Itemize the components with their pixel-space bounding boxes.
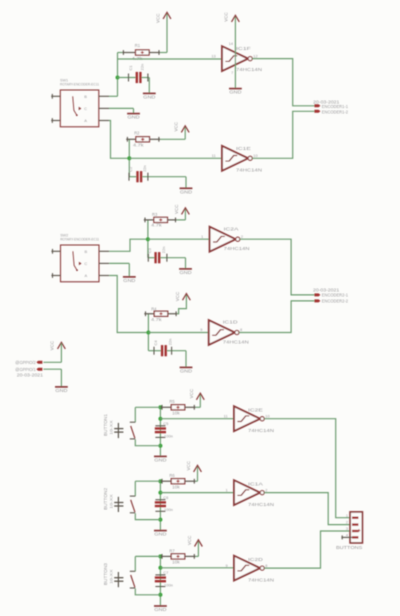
svg-text:IC1E: IC1E bbox=[236, 146, 251, 151]
svg-text:10-XX: 10-XX bbox=[108, 569, 113, 584]
svg-text:R6: R6 bbox=[169, 473, 175, 478]
svg-text:VCC: VCC bbox=[187, 535, 192, 545]
svg-text:12: 12 bbox=[253, 53, 257, 58]
svg-text:IC1A: IC1A bbox=[248, 482, 263, 487]
svg-text:22n: 22n bbox=[142, 165, 147, 172]
svg-text:13: 13 bbox=[211, 53, 215, 58]
svg-text:VCC: VCC bbox=[224, 12, 229, 22]
svg-text:A: A bbox=[84, 273, 87, 278]
svg-text:GND: GND bbox=[179, 270, 192, 275]
svg-text:BUTTON1: BUTTON1 bbox=[103, 413, 108, 436]
svg-text:GND: GND bbox=[154, 457, 167, 462]
svg-text:20-03-2021: 20-03-2021 bbox=[17, 372, 44, 377]
svg-text:14: 14 bbox=[229, 42, 233, 46]
svg-text:74HC14N: 74HC14N bbox=[236, 67, 262, 72]
svg-text:R7: R7 bbox=[169, 548, 175, 553]
svg-text:GND: GND bbox=[127, 115, 140, 120]
svg-text:BUTTONS: BUTTONS bbox=[336, 545, 362, 551]
svg-text:VCC: VCC bbox=[189, 388, 194, 398]
svg-text:10k: 10k bbox=[172, 485, 181, 490]
svg-text:@GPPIO/1: @GPPIO/1 bbox=[15, 367, 36, 372]
svg-text:10-XX: 10-XX bbox=[108, 420, 113, 435]
svg-text:C: C bbox=[84, 261, 87, 266]
svg-text:B: B bbox=[84, 94, 87, 99]
svg-text:IC2E: IC2E bbox=[248, 408, 263, 413]
svg-text:VCC: VCC bbox=[174, 121, 179, 131]
svg-text:GND: GND bbox=[154, 607, 167, 612]
svg-text:C6: C6 bbox=[163, 495, 169, 500]
svg-text:8: 8 bbox=[240, 327, 242, 332]
svg-text:C3: C3 bbox=[147, 247, 152, 253]
svg-text:ENCODER1-2: ENCODER1-2 bbox=[322, 109, 349, 114]
svg-text:74HC14N: 74HC14N bbox=[248, 428, 274, 433]
svg-text:A: A bbox=[84, 118, 87, 123]
svg-text:ENCODER2-2: ENCODER2-2 bbox=[322, 299, 349, 304]
svg-text:R1: R1 bbox=[135, 43, 141, 48]
svg-text:4.7k: 4.7k bbox=[151, 223, 163, 228]
svg-text:2: 2 bbox=[265, 487, 267, 492]
svg-text:GND: GND bbox=[229, 90, 242, 95]
svg-text:22n: 22n bbox=[161, 247, 166, 254]
svg-text:3: 3 bbox=[346, 526, 348, 531]
svg-text:GND: GND bbox=[123, 278, 136, 283]
svg-text:GND: GND bbox=[180, 189, 193, 194]
svg-text:8: 8 bbox=[265, 563, 267, 568]
svg-text:C1: C1 bbox=[128, 65, 133, 71]
svg-text:74HC14N: 74HC14N bbox=[224, 246, 250, 251]
svg-text:B: B bbox=[84, 249, 87, 254]
svg-text:VCC: VCC bbox=[175, 291, 180, 301]
svg-text:100n: 100n bbox=[164, 582, 173, 587]
svg-text:4.7k: 4.7k bbox=[132, 56, 144, 61]
svg-text:100n: 100n bbox=[164, 507, 173, 512]
svg-text:4.7k: 4.7k bbox=[133, 143, 145, 148]
svg-text:22n: 22n bbox=[140, 64, 145, 71]
svg-text:BUTTON3: BUTTON3 bbox=[103, 562, 108, 585]
svg-text:74HC14N: 74HC14N bbox=[223, 340, 249, 345]
svg-text:74HC14N: 74HC14N bbox=[236, 167, 262, 172]
svg-text:VCC: VCC bbox=[174, 204, 179, 214]
svg-text:R3: R3 bbox=[152, 212, 158, 217]
svg-text:1: 1 bbox=[201, 234, 203, 239]
svg-text:ROTARY-ENCODER-EC11: ROTARY-ENCODER-EC11 bbox=[60, 238, 99, 242]
svg-text:74HC14N: 74HC14N bbox=[248, 577, 274, 582]
svg-text:IC2A: IC2A bbox=[224, 227, 239, 232]
svg-text:C: C bbox=[84, 106, 87, 111]
svg-text:C7: C7 bbox=[163, 570, 169, 575]
svg-text:GND: GND bbox=[55, 388, 68, 393]
svg-text:10k: 10k bbox=[172, 560, 181, 565]
svg-text:ROTARY-ENCODER-EC11: ROTARY-ENCODER-EC11 bbox=[60, 83, 99, 87]
svg-text:22n: 22n bbox=[168, 339, 173, 346]
svg-text:VCC: VCC bbox=[156, 13, 161, 23]
svg-text:VCC: VCC bbox=[186, 460, 191, 470]
svg-text:1: 1 bbox=[226, 487, 228, 492]
svg-text:GND: GND bbox=[143, 94, 156, 99]
svg-text:C4: C4 bbox=[153, 340, 158, 346]
svg-text:R4: R4 bbox=[151, 306, 157, 311]
svg-text:2: 2 bbox=[346, 520, 348, 525]
svg-text:9: 9 bbox=[226, 563, 228, 568]
svg-text:10-XX: 10-XX bbox=[108, 494, 113, 509]
svg-text:IC2D: IC2D bbox=[248, 557, 264, 562]
svg-text:@GPPIO/2: @GPPIO/2 bbox=[15, 360, 36, 365]
svg-text:11: 11 bbox=[224, 413, 228, 418]
svg-text:74HC14N: 74HC14N bbox=[248, 502, 274, 507]
svg-text:BUTTON2: BUTTON2 bbox=[103, 487, 108, 510]
svg-text:ENCODER2-1: ENCODER2-1 bbox=[322, 293, 349, 298]
svg-text:R2: R2 bbox=[134, 131, 140, 136]
svg-text:ENCODER1-1: ENCODER1-1 bbox=[322, 104, 349, 109]
svg-text:R5: R5 bbox=[169, 399, 175, 404]
svg-text:C2: C2 bbox=[128, 166, 133, 172]
svg-text:9: 9 bbox=[200, 327, 202, 332]
svg-text:GND: GND bbox=[154, 532, 167, 537]
svg-text:7: 7 bbox=[231, 71, 233, 75]
svg-text:VCC: VCC bbox=[50, 340, 55, 350]
svg-text:IC1D: IC1D bbox=[223, 320, 239, 325]
svg-text:2: 2 bbox=[241, 234, 243, 239]
svg-text:C5: C5 bbox=[163, 421, 169, 426]
svg-text:4.7k: 4.7k bbox=[151, 317, 163, 322]
svg-text:GND: GND bbox=[180, 368, 193, 373]
svg-text:11: 11 bbox=[212, 153, 216, 158]
svg-text:10k: 10k bbox=[172, 411, 181, 416]
svg-text:IC1F: IC1F bbox=[236, 46, 251, 51]
svg-text:1: 1 bbox=[346, 513, 348, 518]
svg-text:100n: 100n bbox=[164, 433, 173, 438]
